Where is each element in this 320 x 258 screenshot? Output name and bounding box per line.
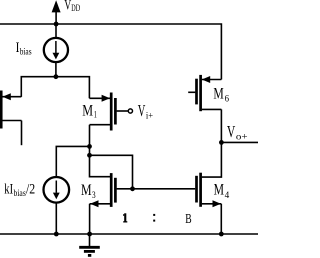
junction dot: VDD at rail <box>54 22 59 27</box>
label ratio 1 : B <box>123 212 192 227</box>
wire: Vo+ output to right edge <box>221 141 258 143</box>
junction dot: Vo+ node <box>219 140 224 145</box>
wire ground rail (bottom) <box>0 233 258 235</box>
junction dot: tail node <box>54 74 59 79</box>
wire: mirror gate net (node B to M3/M4 gates) <box>90 155 196 189</box>
wire: M6 drain to Vo+ node to M4 drain <box>202 109 222 177</box>
svg-text:M: M <box>213 85 223 102</box>
svg-text:DD: DD <box>71 3 80 13</box>
svg-text:i+: i+ <box>146 112 153 122</box>
junction dot: kI source at rail <box>54 232 59 237</box>
ground symbol <box>79 234 100 255</box>
svg-text:V: V <box>227 122 235 141</box>
svg-text:/2: /2 <box>26 182 35 198</box>
current source Ibias <box>44 38 68 62</box>
junction dot: M4 source at rail <box>219 232 224 237</box>
current source kI_bias/2 <box>44 177 70 203</box>
wire: M3 source to ground rail <box>89 204 91 234</box>
svg-text:kI: kI <box>4 182 13 198</box>
label V_i+ <box>138 101 153 122</box>
svg-text:bias: bias <box>20 48 32 58</box>
label I_bias <box>16 40 32 58</box>
wire: Ibias to tail node <box>55 62 57 77</box>
label M3 <box>81 182 96 201</box>
transistor M2 (left PMOS of pair, partially cropped) <box>1 91 21 129</box>
transistor M1 (right PMOS of pair) <box>89 93 128 131</box>
svg-text:B: B <box>185 212 191 227</box>
VDD supply arrow <box>52 0 61 24</box>
svg-text:4: 4 <box>225 191 230 201</box>
junction dot: node B (to mirror gates) <box>87 153 92 158</box>
wire: M4 source to ground rail <box>220 204 222 234</box>
label kI_bias/2 <box>4 182 35 200</box>
wire: kI_bias/2 to ground rail <box>55 203 57 234</box>
junction dot: M3 source at rail <box>87 232 92 237</box>
svg-text:bias: bias <box>14 189 27 199</box>
label M1 <box>82 102 97 120</box>
svg-text:M: M <box>214 181 224 198</box>
transistor M3 (NMOS, diode-connected) <box>90 173 116 207</box>
svg-text:6: 6 <box>225 95 230 105</box>
wire: M2 drain (dangling, cropped) <box>21 121 23 146</box>
transistor M4 (NMOS, output mirror) <box>197 173 222 208</box>
transistor M6 (PMOS, top right) <box>188 75 221 111</box>
label M4 <box>214 181 230 201</box>
wire VDD rail (top, corners down to M6 source) <box>0 24 221 80</box>
wire: rail to Ibias source <box>55 24 57 38</box>
svg-text:3: 3 <box>92 191 96 201</box>
terminal Vi+ (open circle) <box>128 109 132 113</box>
junction dot: node A (to kI source) <box>87 144 92 149</box>
svg-text:V: V <box>138 101 146 120</box>
svg-text:1: 1 <box>94 111 97 121</box>
junction dot: gate node <box>130 186 135 191</box>
label V_o+ <box>227 122 248 143</box>
label V_DD <box>64 0 80 14</box>
svg-text:M: M <box>81 182 92 199</box>
wire: tail rail of differential pair <box>21 77 89 99</box>
label M6 <box>213 85 229 104</box>
svg-text:o+: o+ <box>236 133 248 143</box>
wire: node A to kI_bias/2 source <box>56 146 89 177</box>
svg-text:M: M <box>82 102 93 119</box>
wire: M1 drain down to M3 drain <box>90 125 111 177</box>
